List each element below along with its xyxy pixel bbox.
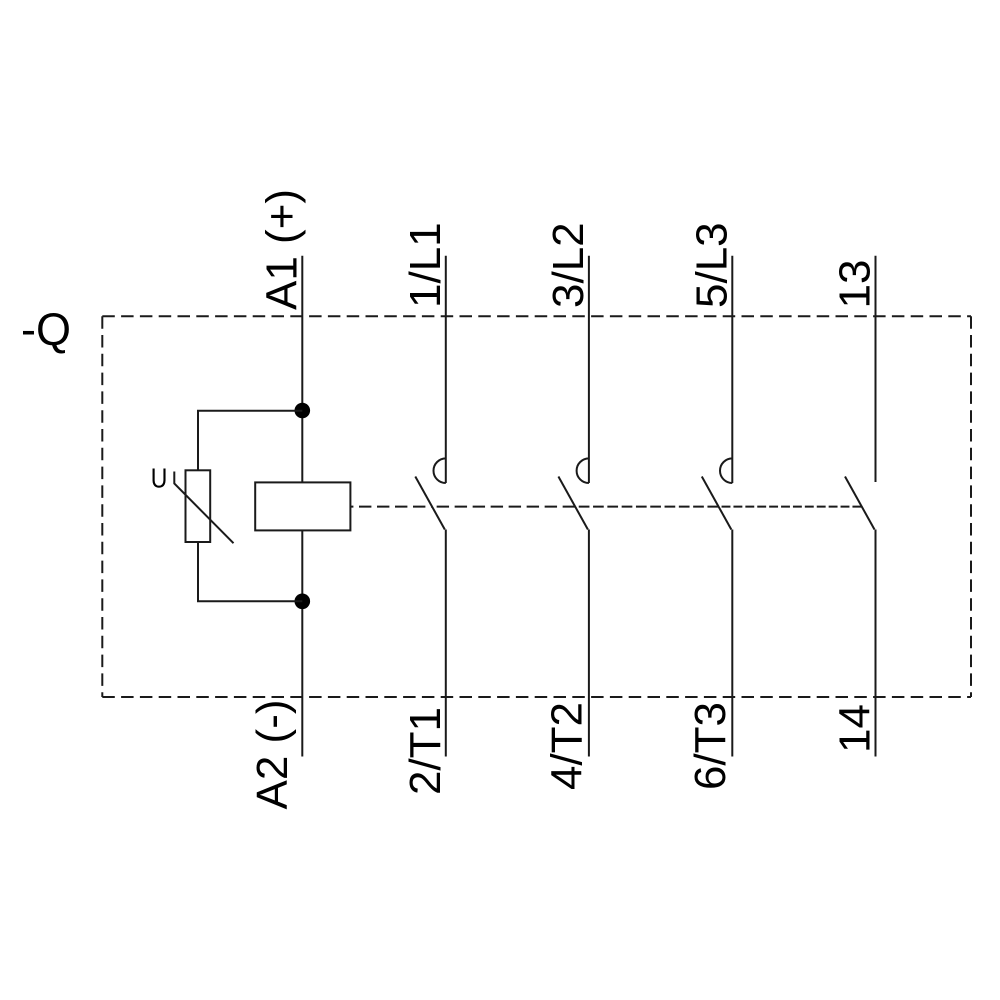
varistor body	[186, 470, 211, 542]
main contact pole 1	[415, 256, 446, 757]
svg-text:U: U	[151, 464, 168, 495]
svg-text:-Q: -Q	[21, 304, 71, 355]
svg-text:2/T1: 2/T1	[401, 707, 450, 795]
wire coil to A2	[301, 530, 303, 756]
auxiliary contact 13-14	[845, 256, 876, 757]
svg-text:14: 14	[831, 704, 880, 753]
svg-text:6/T3: 6/T3	[686, 702, 735, 790]
svg-text:A2 (-): A2 (-)	[248, 700, 297, 810]
mechanical linkage dashed line: pole 2 to pole 3	[575, 506, 718, 508]
svg-text:4/T2: 4/T2	[543, 702, 592, 790]
node junction dot bottom	[295, 594, 311, 610]
svg-text:1/L1: 1/L1	[401, 222, 450, 308]
node junction dot top	[295, 403, 311, 419]
wire varistor branch bottom	[198, 542, 302, 601]
coil K (rectangle)	[255, 482, 350, 530]
main contact pole 2	[558, 256, 589, 757]
mechanical linkage dashed line: coil to pole 1	[350, 506, 432, 508]
svg-text:5/L3: 5/L3	[687, 222, 736, 308]
svg-text:3/L2: 3/L2	[544, 222, 593, 308]
mechanical linkage dashed line: pole 1 to pole 2	[432, 506, 575, 508]
wire A1 to coil	[301, 256, 303, 483]
svg-text:A1 (+): A1 (+)	[257, 189, 306, 310]
enclosure dashed border	[102, 316, 971, 697]
varistor diagonal stroke	[174, 472, 233, 544]
main contact pole 3	[702, 256, 733, 757]
wire varistor branch top	[198, 411, 302, 471]
svg-text:13: 13	[831, 260, 880, 309]
mechanical linkage dashed line: pole 3 to auxiliary contact	[719, 506, 862, 508]
